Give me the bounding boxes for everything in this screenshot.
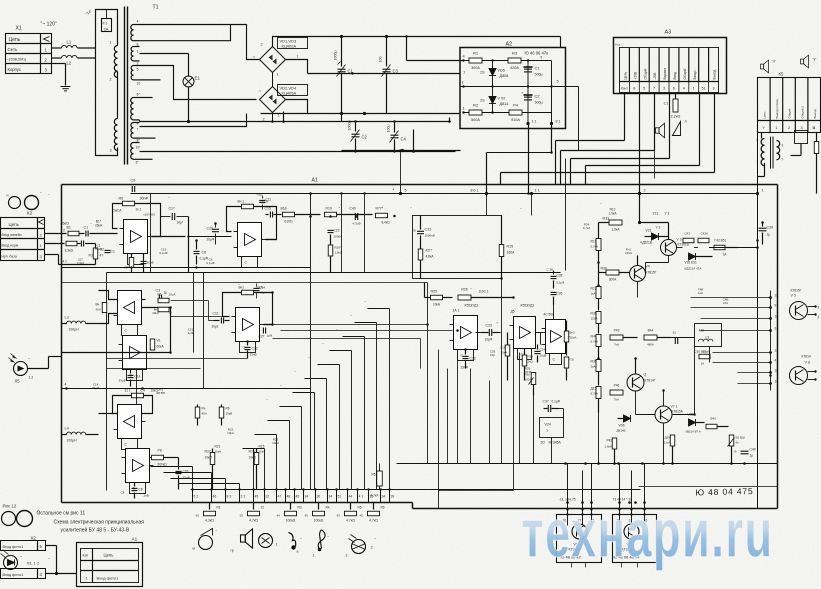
svg-text:34: 34 xyxy=(382,495,386,499)
wire rail to box xyxy=(531,194,533,216)
wire bundle extra drop xyxy=(565,159,567,271)
svg-text:С9: С9 xyxy=(131,179,136,183)
svg-text:L4: L4 xyxy=(65,427,69,431)
svg-text:44: 44 xyxy=(277,514,281,518)
svg-text:8,4кΩ: 8,4кΩ xyxy=(382,221,391,225)
resistor R6 small xyxy=(219,407,224,418)
svg-text:R15: R15 xyxy=(259,445,265,449)
wires mid xyxy=(481,333,483,350)
svg-text:1: 1 xyxy=(775,126,777,130)
svg-text:л: л xyxy=(685,120,687,124)
svg-text:4п: 4п xyxy=(736,441,740,445)
svg-text:У 3: У 3 xyxy=(665,212,670,216)
wire X2.1 to amp xyxy=(45,243,65,245)
svg-text:R15: R15 xyxy=(249,450,255,454)
svg-text:2к 1: 2к 1 xyxy=(136,208,142,212)
svg-text:R4ч: R4ч xyxy=(591,335,597,339)
svg-text:1μФ: 1μФ xyxy=(188,331,194,335)
svg-text:1: 1 xyxy=(313,554,315,558)
transformer T1 secondary winding e xyxy=(131,123,134,139)
transistor V5 output xyxy=(790,302,808,320)
svg-text:Вч2: Вч2 xyxy=(570,331,575,335)
svg-text:1: 1 xyxy=(463,107,465,111)
capacitor C24k xyxy=(535,351,541,353)
wire X1.1 to L1 xyxy=(52,47,62,49)
note symbol bottom xyxy=(289,533,296,547)
svg-text:Вхрамн: Вхрамн xyxy=(663,68,667,80)
svg-text:2,2кΩ: 2,2кΩ xyxy=(671,115,681,119)
adjust arrow C3 xyxy=(382,65,391,77)
capacitor C10 below U1 xyxy=(141,261,147,263)
svg-text:R33: R33 xyxy=(603,217,610,221)
svg-text:Нул. база: Нул. база xyxy=(2,255,17,259)
svg-text:КТ814: КТ814 xyxy=(802,355,811,359)
svg-text:F1: F1 xyxy=(103,21,108,26)
resistor R3 vertical xyxy=(95,244,97,248)
wire channel2 mid bus xyxy=(107,358,248,360)
wire stub A2 right xyxy=(546,60,553,62)
svg-text:8 6 1: 8 6 1 xyxy=(471,189,479,193)
capacitor C5 vertical xyxy=(107,244,109,249)
svg-text:45: 45 xyxy=(360,514,364,518)
resistor group left of U3 xyxy=(102,303,107,313)
svg-text:": " xyxy=(309,357,310,361)
svg-text:6,7кА: 6,7кА xyxy=(591,340,598,344)
horizontal wire y486 right xyxy=(639,486,778,488)
svg-text:КС345А: КС345А xyxy=(549,441,562,445)
svg-text:Вход норм: Вход норм xyxy=(2,244,19,248)
svg-text:": " xyxy=(323,343,324,347)
wire lamp bottom bus xyxy=(140,121,189,123)
svg-text:3: 3 xyxy=(346,554,348,558)
svg-text:R1: R1 xyxy=(217,506,221,510)
wire secondary to lamp E1 xyxy=(140,53,189,55)
svg-text:+5μ: +5μ xyxy=(257,193,262,197)
svg-text:2А: 2А xyxy=(104,27,109,32)
pin arrow X2 xyxy=(39,220,44,225)
transformer T1 secondary winding b xyxy=(131,47,133,61)
svg-text:1 2: 1 2 xyxy=(61,229,66,233)
svg-text:2: 2 xyxy=(644,189,646,193)
vertical wire x470 xyxy=(470,369,472,464)
wires into junction column xyxy=(691,297,771,299)
resistor R77 xyxy=(376,213,388,218)
resistor R3 A2 xyxy=(508,58,521,63)
inductor L3 xyxy=(62,323,67,325)
svg-text:R20*: R20* xyxy=(335,246,343,250)
svg-text:V7 1: V7 1 xyxy=(671,405,678,409)
svg-text:~220В,50Гц: ~220В,50Гц xyxy=(7,58,27,62)
pin 46 xyxy=(211,490,213,503)
resistor R36 xyxy=(596,335,601,347)
svg-text:Y 3: Y 3 xyxy=(656,226,661,230)
svg-text:2: 2 xyxy=(110,78,112,82)
svg-text:10кΩ: 10кΩ xyxy=(205,456,213,460)
svg-text:10кА: 10кА xyxy=(272,441,279,445)
svg-text:45: 45 xyxy=(305,514,309,518)
fuse F1 xyxy=(102,19,112,32)
pin 35 xyxy=(368,490,370,503)
feedback R around U6 xyxy=(132,393,144,398)
svg-text:10: 10 xyxy=(775,315,779,319)
wire secondary 7 to bridge2 bottom xyxy=(140,114,247,127)
svg-text:160А: 160А xyxy=(507,251,516,255)
svg-text:Цепь: Цепь xyxy=(763,111,767,119)
wires right region xyxy=(757,133,759,509)
svg-text:С3: С3 xyxy=(393,69,399,74)
svg-text:4,3кΩ: 4,3кΩ xyxy=(205,519,214,523)
mid connection to D2 xyxy=(424,283,426,298)
svg-text:КД521В: КД521В xyxy=(641,241,652,245)
svg-text:Х3, 1 2: Х3, 1 2 xyxy=(27,561,40,566)
svg-text:R19: R19 xyxy=(326,207,332,211)
svg-text:1,5кА: 1,5кА xyxy=(609,211,618,215)
svg-text:Г.В: Г.В xyxy=(570,358,574,362)
svg-text:600кΩ: 600кΩ xyxy=(158,463,168,467)
wire U5 input long xyxy=(209,320,214,322)
svg-text:10кА: 10кА xyxy=(433,303,441,307)
svg-text:Рис 12: Рис 12 xyxy=(3,504,17,509)
transistor V1 xyxy=(572,524,587,539)
svg-text:КТ815Г: КТ815Г xyxy=(791,289,802,293)
svg-text:С1: С1 xyxy=(84,226,89,230)
wire secondary 5 to bridge VD2 xyxy=(140,66,257,100)
svg-text:10кΩ: 10кΩ xyxy=(249,456,257,460)
svg-text:R35: R35 xyxy=(591,360,597,364)
svg-text:43: 43 xyxy=(337,514,341,518)
svg-text:2кΩ: 2кΩ xyxy=(528,360,534,364)
resistor R26 xyxy=(458,295,471,300)
wire X2.3 node xyxy=(45,254,59,256)
svg-text:VD5: VD5 xyxy=(498,69,505,73)
svg-text:5 2: 5 2 xyxy=(194,495,199,499)
svg-text:150А: 150А xyxy=(525,378,532,382)
resistor R1 bottom xyxy=(209,503,211,510)
svg-text:30пФ: 30пФ xyxy=(140,197,149,201)
svg-text:1μ: 1μ xyxy=(750,454,754,458)
svg-text:Конт: Конт xyxy=(621,87,628,91)
resistor R11 vertical xyxy=(596,239,601,251)
resistor R15b xyxy=(256,449,258,453)
svg-text:V21: V21 xyxy=(646,229,652,233)
svg-text:3: 3 xyxy=(801,126,803,130)
transistor V7.1 xyxy=(655,406,672,423)
svg-text:R6: R6 xyxy=(381,506,385,510)
wire bundle verticals into A1 xyxy=(555,141,557,185)
pin 32 xyxy=(264,490,266,503)
wire bridge VD2 + out xyxy=(286,100,308,114)
svg-text:Корпус: Корпус xyxy=(8,67,22,72)
transformer T1 primary winding upper xyxy=(114,46,117,78)
resistor R4 A2 xyxy=(509,110,522,115)
svg-text:33μФ: 33μФ xyxy=(119,379,127,383)
svg-text:С20: С20 xyxy=(207,227,213,231)
svg-text:Остальное см рис 11: Остальное см рис 11 xyxy=(37,511,86,517)
pin 5 2 xyxy=(192,490,194,503)
wires lower channel xyxy=(99,413,113,415)
svg-text:10μВ: 10μВ xyxy=(540,354,547,358)
svg-text:45: 45 xyxy=(196,514,200,518)
svg-text:2: 2 xyxy=(788,126,790,130)
svg-text:Вход1: Вход1 xyxy=(693,70,697,79)
capacitor C4 xyxy=(394,122,396,133)
resistor V1 right of U4 xyxy=(147,344,153,346)
capacitor C26 xyxy=(176,471,182,473)
svg-text:Р4З: Р4З xyxy=(614,329,620,333)
svg-text:1А: 1А xyxy=(701,362,705,366)
vertical wire x519 xyxy=(519,353,521,464)
svg-text:Общий: Общий xyxy=(683,68,687,79)
svg-text:С24: С24 xyxy=(540,348,546,352)
transformer T1 secondary winding c xyxy=(131,66,133,80)
transistor V2 xyxy=(624,524,639,539)
zener VD5 A2 xyxy=(492,61,494,113)
resistor R45 xyxy=(596,387,601,399)
wire C4 bus down xyxy=(341,114,343,122)
svg-text:1 2: 1 2 xyxy=(29,376,34,380)
wires A3 pins down xyxy=(624,93,626,141)
svg-text:С26: С26 xyxy=(183,470,189,474)
svg-text:44: 44 xyxy=(349,495,353,499)
resistor R35a xyxy=(596,312,601,324)
wire secondary 10 stub xyxy=(140,79,161,81)
feedback resistor R6 xyxy=(123,201,135,206)
pin 39 xyxy=(389,490,391,503)
capacitor C2 xyxy=(355,122,357,132)
svg-text:Г42 В51: Г42 В51 xyxy=(715,239,727,243)
wire D cluster b xyxy=(536,332,546,334)
svg-text:Цепь: Цепь xyxy=(624,71,628,79)
svg-text:100: 100 xyxy=(379,57,383,63)
wire D cluster a xyxy=(476,332,482,334)
svg-text:С22: С22 xyxy=(252,347,258,351)
svg-text:L3: L3 xyxy=(65,316,69,320)
resistor R44 h xyxy=(644,335,657,340)
wire secondary 8 to node xyxy=(140,25,231,41)
resistor R5 bottom xyxy=(350,503,352,510)
zener VD6 A2 xyxy=(489,97,496,104)
svg-text:4: 4 xyxy=(775,359,777,363)
svg-text:40А: 40А xyxy=(202,412,207,416)
extra vertical resistor R6b xyxy=(379,464,381,471)
svg-text:С 38: С 38 xyxy=(547,268,554,272)
svg-text:": " xyxy=(267,399,268,403)
pin 45 xyxy=(253,490,255,503)
wire U1 out to U2 xyxy=(188,217,190,273)
label box VD2 VD4 xyxy=(278,85,308,96)
svg-text:R15: R15 xyxy=(507,245,514,249)
diode V25 xyxy=(689,253,696,260)
svg-text:СЧ: СЧ xyxy=(141,389,145,393)
wire right table down xyxy=(788,133,790,156)
svg-text:480А: 480А xyxy=(647,343,654,347)
wire bottom bus right xyxy=(397,463,778,465)
svg-text:R28: R28 xyxy=(528,355,534,359)
svg-text:0,1μФ: 0,1μФ xyxy=(557,281,566,285)
svg-text:33пФ: 33пФ xyxy=(461,366,469,370)
svg-text:V24: V24 xyxy=(545,423,551,427)
svg-text:Y: Y xyxy=(763,126,766,130)
resistor R52 xyxy=(714,245,725,250)
svg-text:5,1кА: 5,1кА xyxy=(664,441,671,445)
svg-text:V 8: V 8 xyxy=(805,361,810,365)
output junction column xyxy=(770,291,772,391)
svg-text:51: 51 xyxy=(701,87,705,91)
svg-text:60кА: 60кА xyxy=(157,345,165,349)
svg-text:R3: R3 xyxy=(89,254,93,258)
resistor R39 xyxy=(606,270,619,275)
svg-text:"~ 120": "~ 120" xyxy=(41,22,57,28)
svg-text:0,7кА: 0,7кА xyxy=(591,245,598,249)
transformer T2 xyxy=(761,133,763,139)
svg-text:32: 32 xyxy=(266,495,270,499)
svg-text:V 3: V 3 xyxy=(791,294,796,298)
svg-text:R25: R25 xyxy=(431,290,438,294)
svg-text:1: 1 xyxy=(762,189,764,193)
transistor V4 xyxy=(630,266,646,282)
svg-text:R11: R11 xyxy=(591,240,597,244)
wire V7 to relay xyxy=(673,414,695,416)
inner box upper right xyxy=(413,216,502,279)
svg-text:С39: С39 xyxy=(767,226,774,230)
op-amp D3.1 xyxy=(514,317,536,349)
resistor R2 A2 xyxy=(469,110,482,115)
svg-text:Выход: Выход xyxy=(713,70,717,80)
wire channel1 output bus xyxy=(62,267,311,269)
channel divider rail xyxy=(107,272,561,274)
wire X1.3 to ground xyxy=(52,63,66,65)
svg-text:34: 34 xyxy=(305,495,309,499)
resistor R35b xyxy=(596,360,601,372)
resistor R46b xyxy=(610,390,623,395)
inductor L2 xyxy=(62,55,78,58)
wire secondary 10* long bus xyxy=(140,151,456,153)
vertical wire x489 xyxy=(489,381,491,464)
svg-text:L2: L2 xyxy=(67,61,72,66)
svg-text:С1: С1 xyxy=(111,250,115,254)
connector box Vhod foto 2 xyxy=(1,569,46,579)
svg-text:VD6: VD6 xyxy=(619,424,625,428)
svg-text:С17: С17 xyxy=(169,207,175,211)
transformer T1 core xyxy=(124,7,126,165)
svg-text:2пФ: 2пФ xyxy=(144,494,150,498)
svg-text:В2 ВШ: В2 ВШ xyxy=(736,436,746,440)
svg-text:Схема электрическая принципиал: Схема электрическая принципиальная xyxy=(54,520,145,526)
svg-text:1: 1 xyxy=(137,50,139,54)
resistor R48 vertical xyxy=(670,435,675,446)
op-amp U5.1 xyxy=(236,308,260,342)
svg-text:С36: С36 xyxy=(557,292,563,296)
wire A3 spare down xyxy=(654,151,656,179)
svg-text:22: 22 xyxy=(261,506,265,510)
svg-text:2: 2 xyxy=(263,118,265,122)
svg-text:Д15: Д15 xyxy=(591,387,597,391)
svg-text:10μ: 10μ xyxy=(490,353,495,357)
resistor R34 vertical xyxy=(564,357,569,368)
svg-text:1: 1 xyxy=(276,543,278,547)
pin stubs below boxes xyxy=(571,563,573,568)
svg-text:0В51А ВТ А: 0В51А ВТ А xyxy=(686,430,701,434)
photodiode X3 xyxy=(4,556,18,570)
power rail inside A1 xyxy=(131,193,758,195)
svg-text:К5: К5 xyxy=(779,72,784,77)
wire D4 out xyxy=(565,337,567,356)
dc bus mid xyxy=(308,73,460,75)
op-amp D4.1 xyxy=(546,320,566,354)
transformer T1 primary winding lower xyxy=(114,119,117,151)
svg-text:С42А: С42А xyxy=(701,232,709,236)
svg-text:С31: С31 xyxy=(425,228,432,232)
svg-text:1: 1 xyxy=(693,87,695,91)
svg-text:к10*ОК2: к10*ОК2 xyxy=(144,213,156,217)
resistor R19 xyxy=(325,212,337,217)
svg-text:Вход фото1: Вход фото1 xyxy=(97,576,120,581)
resistor R15 vertical xyxy=(501,216,503,244)
capacitor C7 node xyxy=(405,246,413,248)
junction node 2 rail xyxy=(638,192,641,195)
svg-text:100кΩ: 100кΩ xyxy=(314,519,324,523)
resistor below U1 xyxy=(131,254,133,259)
wire V3 collector to R50 xyxy=(677,247,683,249)
svg-text:2: 2 xyxy=(818,316,820,320)
svg-text:Общий: Общий xyxy=(788,108,792,118)
vertical x150 link xyxy=(150,194,152,273)
svg-text:Р4: Р4 xyxy=(513,103,519,108)
capacitor C17 xyxy=(172,213,174,220)
pin 48 xyxy=(285,490,287,503)
adjust arrow C2 xyxy=(351,130,360,142)
op-amp U7.1 xyxy=(126,449,150,483)
svg-text:Р46: Р46 xyxy=(614,384,620,388)
svg-text:Вход: Вход xyxy=(673,72,677,80)
svg-text:4: 4 xyxy=(683,87,685,91)
svg-text:10сА: 10сА xyxy=(169,293,176,297)
svg-text:3: 3 xyxy=(712,87,714,91)
connector X2 circles xyxy=(9,197,21,209)
capacitor C11 top xyxy=(260,200,266,202)
svg-text:У21: У21 xyxy=(653,212,659,216)
svg-text:R77*: R77* xyxy=(376,207,384,211)
svg-text:1000μ: 1000μ xyxy=(348,120,352,130)
wire U5 out xyxy=(264,324,273,326)
capacitor C2 A2 xyxy=(524,97,532,100)
capacitor C2 input xyxy=(81,241,83,247)
resistor R25 xyxy=(431,295,443,300)
svg-text:2S: 2S xyxy=(480,99,485,103)
A3 pin row xyxy=(620,81,719,83)
svg-text:48: 48 xyxy=(287,495,291,499)
resistor R37 h xyxy=(610,335,623,340)
svg-text:1,8кΩ: 1,8кΩ xyxy=(335,251,343,255)
svg-text:Вход фото1: Вход фото1 xyxy=(3,573,24,577)
wire U2 output xyxy=(266,239,277,241)
dc bus negative xyxy=(261,113,460,115)
svg-text:R6: R6 xyxy=(119,197,124,201)
svg-text:0,7кА: 0,7кА xyxy=(583,226,590,230)
vertical wire x501 xyxy=(501,279,503,464)
svg-text:R27: R27 xyxy=(205,450,211,454)
svg-text:С2: С2 xyxy=(535,94,541,99)
wire R44 to relay box xyxy=(671,337,695,339)
pin 34 xyxy=(327,490,329,503)
svg-text:1: 1 xyxy=(462,81,464,85)
wire R45 down xyxy=(598,413,600,464)
loudspeaker symbol bottom xyxy=(241,529,253,548)
svg-text:Х1: Х1 xyxy=(16,26,22,32)
svg-text:420А: 420А xyxy=(510,66,519,70)
pin 34 xyxy=(303,490,305,503)
svg-text:46: 46 xyxy=(213,495,217,499)
